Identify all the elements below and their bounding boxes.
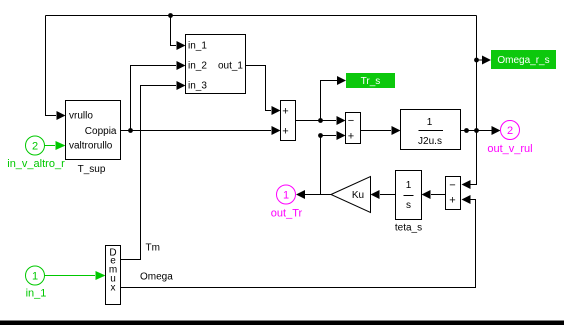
svg-text:1: 1 xyxy=(406,180,412,191)
svg-text:Omega_r_s: Omega_r_s xyxy=(497,55,549,66)
svg-text:in_2: in_2 xyxy=(188,61,207,72)
svg-text:valtrorullo: valtrorullo xyxy=(69,141,113,152)
svg-text:Tr_s: Tr_s xyxy=(361,76,381,87)
svg-text:J2u.s: J2u.s xyxy=(418,136,442,147)
svg-text:in_1: in_1 xyxy=(188,41,207,52)
svg-text:T_sup: T_sup xyxy=(78,164,106,175)
svg-text:2: 2 xyxy=(32,141,38,153)
svg-text:Omega: Omega xyxy=(140,272,173,283)
svg-text:1: 1 xyxy=(32,271,38,283)
svg-text:1: 1 xyxy=(283,190,289,202)
svg-text:+: + xyxy=(449,195,455,207)
svg-text:+: + xyxy=(348,131,354,143)
svg-text:in_v_altro_r: in_v_altro_r xyxy=(7,158,65,170)
svg-text:in_1: in_1 xyxy=(26,288,47,300)
svg-text:out_v_rul: out_v_rul xyxy=(487,143,532,155)
svg-text:vrullo: vrullo xyxy=(69,111,93,122)
svg-text:Tm: Tm xyxy=(146,243,160,254)
svg-text:Ku: Ku xyxy=(352,190,364,201)
svg-text:out_1: out_1 xyxy=(218,61,243,72)
svg-text:2: 2 xyxy=(507,125,513,137)
svg-text:+: + xyxy=(282,126,288,138)
svg-text:x: x xyxy=(111,283,116,294)
svg-text:teta_s: teta_s xyxy=(395,223,422,234)
svg-text:−: − xyxy=(348,115,354,127)
svg-text:+: + xyxy=(282,106,288,118)
svg-text:1: 1 xyxy=(427,117,433,128)
svg-text:−: − xyxy=(449,180,455,192)
svg-text:Coppia: Coppia xyxy=(85,126,117,137)
svg-text:s: s xyxy=(406,200,411,211)
svg-text:out_Tr: out_Tr xyxy=(271,208,303,220)
svg-text:in_3: in_3 xyxy=(188,81,207,92)
